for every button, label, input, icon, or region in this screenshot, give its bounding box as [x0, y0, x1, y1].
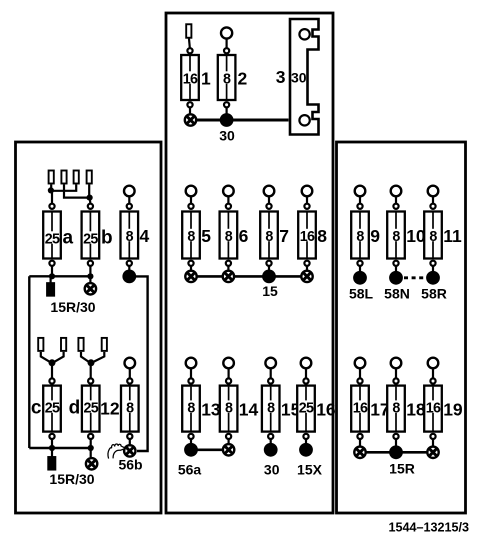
terminal node fuse d top [88, 378, 93, 383]
ring terminal above fuse F19 [428, 358, 439, 369]
terminal node fuse b top [88, 204, 93, 209]
lamp symbol below fuse F5 [185, 271, 196, 282]
lamp symbol below fuse F19 [427, 447, 438, 458]
fuse F13 [182, 386, 200, 432]
wire [359, 266, 361, 272]
wire [432, 439, 434, 446]
wire [270, 439, 272, 444]
terminal node fuse F11 bottom [430, 261, 435, 266]
svg-text:16: 16 [353, 400, 368, 416]
ring terminal above fuse F13 [186, 358, 197, 369]
fuse F1 16A [181, 55, 199, 100]
fuse F14 [220, 386, 238, 432]
svg-text:8: 8 [317, 226, 327, 246]
fuse F4 [121, 212, 139, 259]
terminal node fuse F19 top [430, 378, 435, 383]
wire [190, 439, 192, 444]
svg-text:25: 25 [299, 400, 314, 416]
junction node B [87, 195, 93, 201]
junction below fuse a [49, 273, 55, 279]
lamp symbol below fuse F14 [223, 444, 234, 455]
wire [359, 196, 361, 204]
svg-text:4: 4 [140, 226, 150, 246]
svg-text:8: 8 [267, 400, 275, 416]
fuse F12 8A [121, 386, 139, 432]
terminal node fuse c top [49, 378, 54, 383]
terminal node fuse F7 bottom [266, 261, 271, 266]
terminal node fuse 2 top [224, 48, 229, 53]
svg-text:2: 2 [238, 69, 248, 89]
terminal node fuse F16 top [303, 378, 308, 383]
svg-text:c: c [31, 398, 42, 419]
terminal node fuse F8 bottom [304, 261, 309, 266]
ring terminal above fuse F7 [264, 186, 275, 197]
node below fuse F16 [299, 443, 313, 457]
node below fuse F4 [122, 270, 136, 284]
wire pins to node below [41, 352, 52, 363]
junction node above fuse d [88, 359, 95, 366]
node below fuse F10 [389, 271, 403, 285]
fuse F19 [424, 386, 442, 432]
svg-text:3: 3 [276, 67, 286, 87]
ring terminal above fuse F5 [186, 186, 197, 197]
wire 15R/30 left riser [28, 276, 30, 448]
wire [51, 266, 53, 277]
wire [306, 266, 308, 271]
svg-text:16: 16 [300, 229, 315, 245]
svg-text:8: 8 [392, 229, 400, 245]
fuse box housing middle [166, 13, 333, 513]
svg-text:d: d [69, 398, 81, 419]
ring terminal above fuse F10 [391, 186, 402, 197]
terminal node fuse F7 top [266, 204, 271, 209]
svg-text:b: b [101, 228, 113, 249]
ring terminal above fuse F6 [223, 186, 234, 197]
wire [189, 38, 190, 49]
svg-text:8: 8 [356, 229, 364, 245]
terminal node fuse F4 bottom [127, 261, 132, 266]
svg-text:15R/30: 15R/30 [50, 299, 95, 315]
terminal node fuse F13 bottom [188, 434, 193, 439]
terminal node fuse F10 bottom [393, 261, 398, 266]
connector 3 upper hole [299, 29, 309, 39]
svg-text:15X: 15X [297, 462, 323, 478]
svg-text:8: 8 [429, 229, 437, 245]
connector pins above fuses a/b [49, 171, 54, 184]
fuse F9 [351, 212, 369, 259]
wire pin3 to node A [52, 185, 76, 191]
wire pin4 to node B [88, 185, 90, 198]
svg-text:14: 14 [239, 400, 259, 420]
svg-text:8: 8 [392, 400, 400, 416]
svg-text:8: 8 [223, 71, 231, 87]
wire [432, 196, 434, 204]
terminal node fuse c bottom [49, 434, 54, 439]
svg-text:58L: 58L [349, 286, 374, 302]
svg-text:8: 8 [126, 229, 134, 245]
wire [228, 368, 230, 379]
svg-text:56a: 56a [178, 462, 202, 478]
svg-text:58R: 58R [421, 286, 447, 302]
lamp symbol below fuse F17 [354, 447, 365, 458]
wire [89, 266, 91, 282]
fuse F2 8A [218, 55, 236, 100]
terminal node fuse F19 bottom [430, 434, 435, 439]
terminal node fuse F9 top [357, 204, 362, 209]
terminal node fuse F17 top [357, 378, 362, 383]
terminal node fuse a top [49, 204, 54, 209]
wire [227, 196, 229, 204]
fuse box housing right [337, 142, 466, 513]
wire [268, 196, 270, 204]
ring terminal above fuse F18 [391, 358, 402, 369]
svg-text:25: 25 [83, 400, 98, 416]
svg-text:6: 6 [239, 226, 249, 246]
connector pins above fuse d [78, 338, 83, 351]
wire [395, 196, 397, 204]
bus wire 15R/30 lower [29, 447, 90, 449]
junction node A [48, 187, 54, 193]
node below fuse F11 [426, 271, 440, 285]
terminal node fuse F17 bottom [357, 434, 362, 439]
terminal node fuse 12 top [127, 378, 132, 383]
fuse F18 [387, 386, 405, 432]
svg-text:30: 30 [291, 70, 307, 86]
fuse F11 [424, 212, 442, 259]
wire [395, 368, 397, 379]
terminal node fuse 2 bottom [224, 102, 229, 107]
fuse box housing left [16, 142, 162, 513]
svg-text:18: 18 [406, 400, 426, 420]
svg-text:8: 8 [187, 400, 195, 416]
terminal node fuse 12 bottom [127, 434, 132, 439]
connector 3 lower hole [299, 115, 309, 125]
terminal node fuse F5 top [188, 204, 193, 209]
svg-text:16: 16 [183, 71, 198, 87]
fuse c 25A [43, 386, 61, 432]
ring terminal above fuse F9 [355, 186, 366, 197]
wire [128, 196, 130, 204]
wire [359, 439, 361, 446]
connector pin 15R/30 lower [47, 456, 56, 471]
ring terminal above fuse F11 [428, 186, 439, 197]
svg-text:16: 16 [426, 400, 441, 416]
terminal node fuse d bottom [88, 434, 93, 439]
terminal node fuse F18 top [393, 378, 398, 383]
terminal node fuse F4 top [127, 204, 132, 209]
fuse F7 [260, 212, 278, 259]
svg-text:58N: 58N [384, 286, 410, 302]
terminal node fuse F14 bottom [226, 434, 231, 439]
wire [432, 368, 434, 379]
wire [190, 196, 192, 204]
wire [51, 448, 53, 457]
bus wire 15R [365, 451, 428, 454]
wire [90, 439, 92, 457]
terminal node fuse a bottom [49, 261, 54, 266]
ring terminal above fuse F17 [355, 358, 366, 369]
bus wire 30 to connector 3 [195, 119, 289, 122]
svg-text:30: 30 [264, 462, 280, 478]
terminal node fuse F14 top [226, 378, 231, 383]
svg-text:30: 30 [219, 128, 235, 144]
lamp symbol below fuse F6 [223, 271, 234, 282]
connector pins above fuse c [38, 338, 43, 351]
wire [305, 439, 307, 444]
wire [49, 276, 51, 283]
fuse F8 [298, 212, 316, 259]
wire [270, 368, 272, 379]
wire [226, 39, 228, 49]
terminal node fuse F8 top [304, 204, 309, 209]
fuse F5 [182, 212, 200, 259]
node 30 [220, 113, 234, 127]
svg-text:25: 25 [45, 231, 60, 247]
fuse F17 [351, 386, 369, 432]
terminal node fuse F15 top [268, 378, 273, 383]
ring terminal above fuse F4 [124, 186, 135, 197]
fuse F15 [262, 386, 280, 432]
svg-text:13: 13 [201, 400, 221, 420]
bus wire 15R/30 upper [29, 275, 90, 277]
svg-text:8: 8 [265, 229, 273, 245]
wire [395, 266, 397, 272]
wire [189, 107, 191, 114]
terminal node fuse F13 top [188, 378, 193, 383]
connector pin 15R/30 upper [46, 282, 55, 297]
junction below fuse b [87, 273, 93, 279]
wire pin2 to node B [64, 185, 89, 198]
wire [432, 266, 434, 272]
wire [129, 368, 131, 379]
ring terminal above fuse 2 [221, 27, 232, 38]
wire pin1 to node A [50, 185, 52, 191]
wire [306, 196, 308, 204]
svg-text:12: 12 [100, 399, 120, 419]
bus wire 15 [196, 275, 302, 278]
terminal node fuse F9 bottom [357, 261, 362, 266]
wire [227, 266, 229, 271]
svg-text:19: 19 [443, 400, 463, 420]
wire [268, 266, 270, 271]
fuse F10 [387, 212, 405, 259]
lamp symbol 56b [124, 445, 135, 456]
svg-text:8: 8 [225, 229, 233, 245]
terminal node fuse F11 top [430, 204, 435, 209]
svg-text:8: 8 [225, 400, 233, 416]
connector pin above fuse 1 [186, 24, 191, 38]
lamp symbol below fuse F8 [301, 271, 312, 282]
svg-text:1544–13215/3: 1544–13215/3 [388, 521, 469, 535]
ring terminal above fuse F16 [301, 358, 312, 369]
node below fuse F7 [262, 270, 276, 284]
fuse a 25A [43, 212, 61, 259]
svg-text:8: 8 [187, 229, 195, 245]
wire [305, 368, 307, 379]
fuse d 25A [82, 386, 100, 432]
svg-text:15R: 15R [389, 461, 415, 477]
fuse F16 [297, 386, 315, 432]
lamp symbol below fuse 1 [185, 114, 196, 125]
svg-text:15R/30: 15R/30 [49, 471, 94, 487]
wire [190, 266, 192, 271]
wire [89, 198, 92, 205]
hand cursor pointing at 56b [108, 444, 124, 459]
svg-text:56b: 56b [118, 457, 142, 473]
ring terminal above fuse F14 [223, 358, 234, 369]
svg-text:10: 10 [406, 226, 426, 246]
ring terminal above fuse F15 [265, 358, 276, 369]
node below fuse F15 [264, 443, 278, 457]
svg-text:9: 9 [370, 226, 380, 246]
terminal node fuse F15 bottom [268, 434, 273, 439]
junction below fuse d [88, 445, 94, 451]
terminal node fuse F6 top [226, 204, 231, 209]
svg-text:1: 1 [201, 69, 211, 89]
terminal node fuse 1 top [187, 48, 192, 53]
junction below fuse c [49, 445, 55, 451]
terminal node fuse 1 bottom [187, 102, 192, 107]
svg-text:11: 11 [443, 226, 462, 246]
svg-text:5: 5 [201, 226, 211, 246]
node below fuse F18 [389, 445, 403, 459]
wire [226, 107, 228, 114]
node below fuse F9 [353, 271, 367, 285]
wire from fuse 4 node down to 56b lamp [134, 276, 147, 451]
svg-text:8: 8 [126, 400, 134, 416]
fuse b 25A [82, 212, 100, 259]
node below fuse F13 [184, 443, 198, 457]
svg-text:25: 25 [83, 231, 98, 247]
wire [51, 191, 53, 205]
wire [90, 363, 92, 379]
fuse F6 [220, 212, 238, 259]
wire [190, 368, 192, 379]
svg-text:16: 16 [316, 400, 336, 420]
terminal node fuse F10 top [393, 204, 398, 209]
dashed wire 58N-58R [404, 276, 425, 279]
lamp symbol below fuse d [86, 458, 97, 469]
wire [51, 439, 53, 448]
wire [129, 439, 131, 445]
wire [128, 266, 130, 271]
terminal node fuse F5 bottom [188, 261, 193, 266]
terminal node fuse F18 bottom [393, 434, 398, 439]
svg-text:15: 15 [262, 283, 278, 299]
terminal node fuse F6 bottom [226, 261, 231, 266]
terminal node fuse b bottom [88, 261, 93, 266]
svg-text:25: 25 [45, 400, 60, 416]
terminal node fuse F16 bottom [303, 434, 308, 439]
junction node above fuse c [49, 359, 56, 366]
svg-text:7: 7 [279, 226, 289, 246]
wire [228, 439, 230, 444]
wire [395, 439, 397, 446]
ring terminal above fuse 12 [125, 358, 136, 369]
wire 56a bus [196, 448, 224, 451]
wire [359, 368, 361, 379]
connector strip 3 terminal 30 [290, 19, 319, 135]
wire [51, 363, 53, 379]
svg-text:a: a [63, 228, 74, 249]
lamp symbol below fuse b [85, 283, 96, 294]
wire pins to node below [81, 352, 90, 363]
ring terminal above fuse F8 [302, 186, 313, 197]
